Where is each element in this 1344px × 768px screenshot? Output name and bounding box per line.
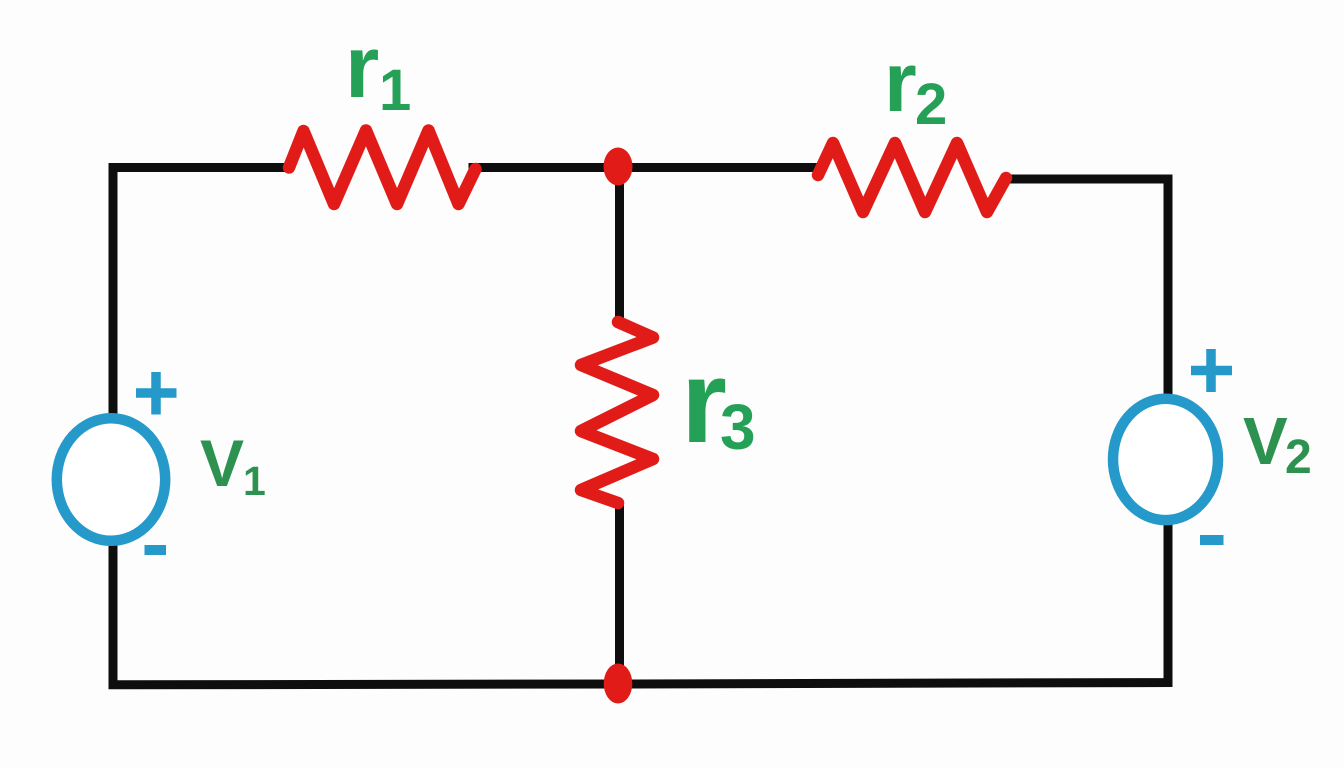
svg-text:r: r	[345, 17, 379, 116]
svg-text:1: 1	[379, 58, 411, 123]
svg-text:2: 2	[915, 72, 947, 137]
svg-text:2: 2	[1285, 431, 1312, 484]
svg-text:r: r	[884, 35, 917, 129]
svg-text:V: V	[200, 426, 244, 500]
svg-text:3: 3	[720, 391, 756, 463]
svg-text:V: V	[1243, 404, 1288, 479]
svg-text:1: 1	[243, 458, 266, 504]
